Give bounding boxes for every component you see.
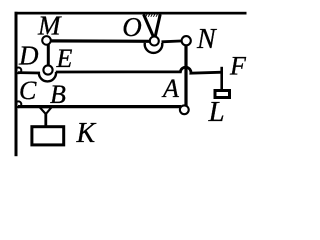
wall pivot D (16, 68, 22, 74)
link M-E (47, 42, 50, 68)
ceiling (15, 12, 247, 15)
weight L (215, 91, 230, 98)
pin M (42, 36, 51, 45)
svg-text:C: C (19, 76, 37, 105)
weight K (32, 127, 64, 145)
pin N (182, 36, 191, 45)
svg-text:M: M (37, 11, 62, 41)
bar C-A (18, 105, 181, 108)
pin O (150, 37, 159, 46)
support triangle at O (144, 14, 154, 36)
svg-text:A: A (161, 74, 179, 103)
hook at B (40, 107, 52, 114)
svg-text:B: B (50, 80, 66, 109)
svg-text:O: O (122, 12, 142, 42)
link O-N (162, 40, 184, 44)
bar E-F with hop over N-A link (56, 67, 223, 73)
link D-E (18, 71, 40, 74)
wall pivot C (16, 101, 22, 107)
hanger B-K (44, 114, 47, 128)
hanger F (220, 67, 223, 90)
link M-O (48, 39, 151, 43)
wall (15, 12, 18, 156)
bearing cup under O (145, 43, 163, 53)
bearing cup under E (39, 72, 56, 82)
pin A (180, 105, 189, 114)
svg-text:E: E (56, 44, 73, 73)
svg-text:F: F (229, 52, 247, 81)
link N-A (184, 43, 187, 106)
svg-text:K: K (76, 118, 97, 149)
pin E (43, 65, 52, 74)
svg-text:L: L (208, 96, 225, 128)
svg-text:D: D (18, 41, 39, 71)
hatching in support (146, 14, 160, 16)
svg-text:N: N (196, 24, 217, 55)
